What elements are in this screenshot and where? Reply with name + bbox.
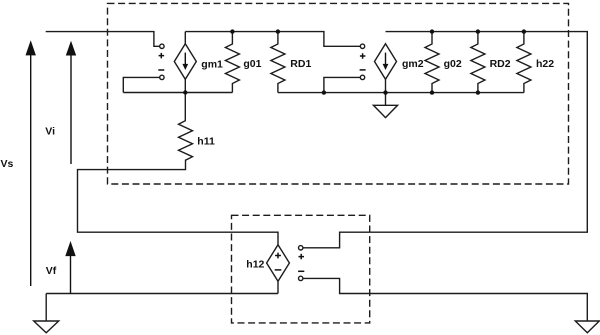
junction dot RD1 top: [276, 29, 280, 33]
wire: bottom left rail to h12 bottom: [46, 293, 278, 295]
arrow Vf head: [65, 241, 75, 256]
arrow Vi head: [66, 41, 76, 56]
minus label at gm2 input: [360, 69, 366, 71]
ground bottom-left triangle: [34, 321, 59, 333]
arrow inside gm2: [385, 53, 387, 65]
ground bottom-right triangle: [575, 321, 599, 333]
gm2 bottom stub: [385, 79, 387, 92]
junction dot gm1 bottom node A: [183, 90, 187, 94]
svg-text:Vs: Vs: [1, 158, 14, 170]
h12 bottom stub: [277, 281, 279, 293]
ground at gm2 stub: [385, 93, 387, 106]
wire: ground rail RD1..h22: [278, 92, 524, 94]
resistor RD1: [271, 32, 285, 93]
wire: lower minus terminal to bottom right rail and right ground: [303, 278, 587, 321]
svg-text:g01: g01: [243, 58, 261, 70]
arrow inside gm1: [184, 53, 186, 65]
minus label at h12 output: [298, 270, 304, 272]
wire: gm2 minus terminal down to ground rail: [324, 77, 360, 92]
resistor RD2: [471, 32, 485, 93]
terminal circle gm2 +: [360, 44, 364, 48]
arrow Vs line: [30, 50, 32, 286]
resistor h22: [517, 32, 531, 93]
terminal circle h12 out -: [299, 276, 303, 280]
junction dot h22 top: [522, 29, 526, 33]
dependent source h12 diamond: [267, 245, 290, 282]
svg-text:Vf: Vf: [46, 265, 57, 277]
wire: left ground stub: [45, 294, 47, 322]
svg-text:gm1: gm1: [201, 58, 223, 70]
wire: input top from Vs to + terminal of stage 1: [46, 32, 160, 47]
dependent source gm2 diamond: [375, 44, 397, 80]
terminal circle h12 out +: [299, 246, 303, 250]
svg-text:gm2: gm2: [402, 58, 424, 70]
svg-text:RD2: RD2: [490, 58, 511, 70]
arrow Vs head: [26, 40, 36, 55]
arrow Vf line: [70, 250, 72, 294]
svg-text:g02: g02: [444, 58, 462, 70]
svg-text:RD1: RD1: [290, 58, 311, 70]
terminal circle gm2 -: [360, 75, 364, 79]
plus label at gm2 input: [360, 53, 366, 59]
arrow Vi line: [70, 50, 72, 164]
resistor h11 and wire from its bottom left-down-right to h12 top: [78, 93, 279, 245]
wire: stage1 top rail gm1/g01/RD1 with step down to gm2 + terminal: [185, 32, 360, 47]
ground at gm2 triangle: [373, 105, 397, 117]
gm1 bottom stub: [184, 79, 186, 92]
junction dot gm2 bottom ground: [383, 90, 387, 94]
gm1 top stub: [184, 32, 186, 44]
junction dot RD2 top: [476, 29, 480, 33]
junction dot g01 top: [183, 29, 526, 94]
dashed box: feedback network lower: [232, 215, 370, 323]
wire: gm1 minus terminal to bottom node A: [123, 77, 159, 92]
wire: stage2 top rail gm2..h22 down right side to feedback + terminal: [303, 32, 587, 248]
terminal circle gm1 +: [160, 44, 365, 280]
svg-text:h11: h11: [197, 135, 215, 147]
terminal circle gm1 -: [160, 75, 164, 79]
junction dot g02 bottom: [430, 90, 434, 94]
junction dot g02 top: [430, 29, 434, 33]
minus sign inside h12: [275, 269, 282, 271]
dashed box: two-port network upper: [108, 3, 569, 184]
svg-text:h22: h22: [536, 58, 554, 70]
plus label at h12 output: [299, 254, 305, 259]
svg-text:h12: h12: [246, 259, 264, 271]
junction dot gm2 minus wire at ground rail: [322, 90, 326, 94]
minus label at gm1 input: [158, 69, 164, 71]
junction dot RD2 bottom: [476, 90, 480, 94]
resistor g02: [425, 32, 439, 93]
wire: node A bottom rail (gm1/g01/h11): [123, 92, 232, 94]
plus label at gm1 input: [158, 53, 365, 271]
svg-text:Vi: Vi: [45, 126, 55, 138]
plus sign inside h12: [275, 253, 282, 270]
dependent source gm1 diamond: [174, 44, 196, 80]
resistor g01: [225, 32, 239, 93]
